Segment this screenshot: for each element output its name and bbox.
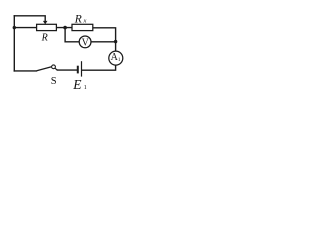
svg-text:x: x bbox=[83, 18, 87, 25]
svg-text:1: 1 bbox=[84, 85, 87, 91]
wire bottom left to switch bbox=[14, 70, 36, 72]
svg-text:S: S bbox=[51, 76, 57, 87]
wire R to junction to Rx bbox=[56, 27, 72, 29]
wire Rx to right rail corner bbox=[93, 28, 116, 51]
resistor R (rheostat body) bbox=[37, 24, 57, 30]
ammeter A1 bbox=[109, 51, 123, 65]
rheostat wiper arrow bbox=[43, 21, 48, 24]
voltmeter V bbox=[79, 36, 91, 48]
wire voltmeter right lead to rail bbox=[91, 41, 116, 43]
wire battery to switch segment bbox=[57, 69, 77, 71]
wire right rail below ammeter bbox=[82, 65, 116, 70]
wire voltmeter branch down and left lead bbox=[65, 28, 79, 42]
node junction dot left rail bbox=[13, 26, 16, 29]
wire left rail to R bbox=[14, 27, 36, 29]
svg-text:V: V bbox=[82, 37, 90, 48]
node junction dot after R bbox=[63, 26, 67, 30]
wire left rail bbox=[13, 16, 15, 71]
switch S bbox=[37, 65, 58, 71]
svg-text:R: R bbox=[74, 13, 82, 25]
battery E1 bbox=[77, 61, 82, 76]
wire top wiper lead bbox=[14, 16, 45, 22]
svg-text:R: R bbox=[41, 32, 48, 43]
node junction dot right rail voltmeter bbox=[114, 40, 117, 43]
svg-text:E: E bbox=[72, 77, 82, 92]
resistor Rx bbox=[72, 24, 93, 30]
